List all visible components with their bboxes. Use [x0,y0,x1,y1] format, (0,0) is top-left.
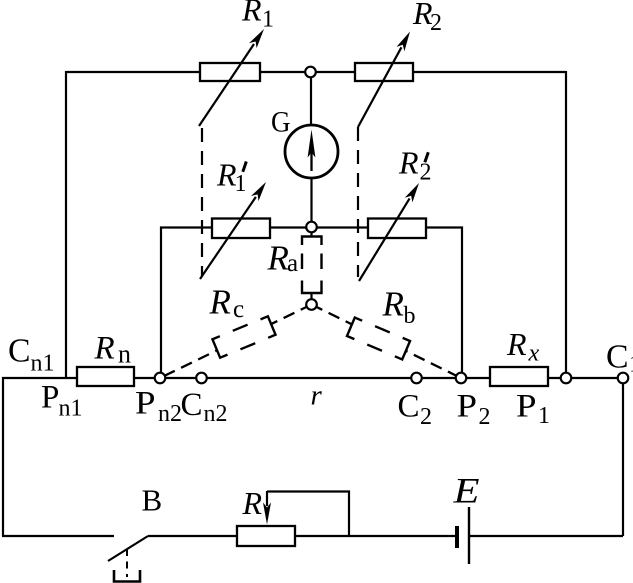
svg-text:C: C [181,387,203,423]
svg-text:R: R [241,0,262,28]
label Rc [209,283,245,324]
wire main bottom bus r [2,377,623,379]
svg-text:R: R [209,283,231,322]
resistor Ra dashed [302,237,322,294]
label Cn1 [8,333,55,377]
wire battery bus right segment [469,535,623,537]
svg-text:P: P [516,388,537,424]
resistor R1' [212,219,270,239]
battery E long plate [468,507,470,564]
svg-text:c: c [233,296,244,323]
resistor R rheostat [237,526,295,546]
svg-text:B: B [142,483,163,518]
wire mid node to Ra [310,227,312,237]
svg-text:R: R [242,485,263,521]
svg-text:n2: n2 [158,401,182,427]
svg-text:G: G [271,106,291,139]
svg-text:n1: n1 [59,396,83,422]
svg-text:r: r [311,380,323,412]
svg-text:R: R [267,239,289,278]
node C1 [618,373,629,384]
node Cn2 [196,373,207,384]
node Pn2 [155,373,166,384]
svg-text:x: x [528,341,540,367]
resistor Rc dashed [212,316,275,357]
node P2 [456,373,467,384]
label Rx [506,326,540,367]
wire galvanometer to mid node [310,176,312,227]
switch B dashed actuator [126,549,128,577]
label Rb [382,285,416,330]
label P1 [516,388,550,429]
label C2 [398,388,433,430]
label Pn1 [41,380,83,422]
wire dashed Rb diagonal [312,305,462,379]
wire rheostat tap [267,492,349,537]
svg-text:n2: n2 [204,401,228,427]
label C1 [606,339,633,378]
wire coupling dashed R1-R1' [201,128,203,276]
galvanometer G circle [285,125,338,178]
wire dashed Rc diagonal [160,305,312,379]
svg-text:R: R [398,145,419,181]
svg-text:2: 2 [420,404,432,430]
svg-text:1: 1 [538,403,550,429]
svg-text:R: R [382,285,404,324]
label Ra [267,239,299,278]
resistor R2' [368,219,426,239]
svg-text:b: b [404,303,416,329]
arrow of variable resistor R2 [358,32,410,128]
svg-text:C: C [606,339,629,376]
svg-text:1: 1 [629,352,633,378]
wire top node to galvanometer [310,72,312,128]
label Cn2 [181,387,228,427]
label R1' [216,157,247,198]
resistor Rx [490,367,548,386]
svg-text:R: R [94,331,115,367]
svg-text:R: R [506,326,527,362]
battery E short plate [455,526,459,548]
svg-text:2: 2 [430,10,442,36]
label Rn [94,331,132,369]
wire right outer vertical [565,71,567,378]
wire mid horizontal R1' to R2' [212,226,426,228]
svg-text:n: n [118,340,131,369]
resistor R1 [200,63,260,81]
label R1 [241,0,274,33]
svg-text:C: C [398,388,420,424]
wire coupling dashed R2-R2' [357,127,359,277]
node P1 [561,373,572,384]
svg-text:2: 2 [420,160,432,186]
resistor R2 [355,63,413,81]
svg-text:P: P [41,380,59,416]
switch B button bracket [114,570,140,582]
svg-text:1: 1 [262,7,274,33]
switch B blade [108,536,148,561]
resistor Rb dashed [347,318,410,360]
svg-text:C: C [8,333,31,370]
node lower junction [306,299,317,310]
node top junction [305,67,316,78]
label Pn2 [135,386,182,428]
wire Ra to lower node [310,292,312,304]
label R2 [412,0,442,36]
label R2' [398,145,432,186]
arrow of rheostat R wiper [263,491,271,525]
wire left outer vertical [65,71,67,378]
node C2 [411,373,422,384]
arrow of variable resistor R1' [200,182,266,279]
wire R2' right lead [426,228,462,379]
node mid junction [306,222,317,233]
svg-text:2: 2 [479,404,491,430]
svg-text:P: P [457,388,478,424]
arrow of variable resistor R1 [199,29,264,126]
arrow of variable resistor R2' [359,183,419,281]
svg-text:P: P [135,386,156,422]
wire R1' left lead [161,228,212,379]
galvanometer G needle arrow [308,130,316,172]
wire top bus [66,71,566,73]
wire battery bus left segment [2,535,114,537]
label P2 [457,388,491,430]
svg-text:a: a [287,250,298,277]
wire battery bus middle segment [148,535,457,537]
resistor Rn [77,367,134,386]
wire left battery drop [2,377,4,536]
wire C1 battery drop [622,378,624,536]
svg-text:1: 1 [235,171,247,197]
svg-text:n1: n1 [31,351,55,377]
svg-text:E: E [452,471,479,511]
